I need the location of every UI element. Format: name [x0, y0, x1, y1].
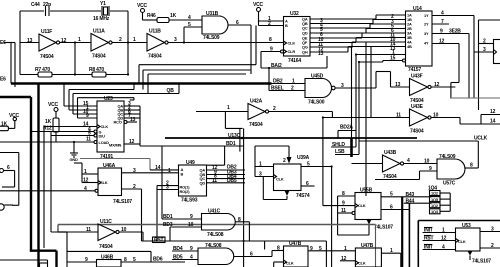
flip-flop partial bottom left — [0, 260, 48, 267]
wire U55B Qbar out to B44 — [381, 198, 432, 210]
wire bus line 4 — [78, 98, 135, 100]
wire crystal right vertical — [127, 11, 129, 76]
svg-text:8: 8 — [470, 163, 473, 169]
svg-text:3: 3 — [341, 83, 344, 89]
and-gate second 74LS08 — [198, 243, 234, 265]
wire long to U43E input — [323, 118, 410, 206]
svg-text:12: 12 — [441, 236, 447, 242]
wire IQ bracket — [440, 193, 450, 211]
svg-text:B: B — [181, 172, 184, 177]
svg-text:74S04: 74S04 — [92, 54, 106, 60]
svg-text:BD1: BD1 — [163, 214, 173, 220]
inverter U43F — [395, 74, 440, 105]
svg-text:3: 3 — [259, 172, 262, 178]
svg-text:CLK: CLK — [288, 41, 296, 46]
svg-text:BD3: BD3 — [163, 222, 173, 228]
svg-text:1Y: 1Y — [424, 13, 429, 18]
IC U46A 74LS107 — [98, 163, 132, 205]
svg-text:R12: R12 — [43, 126, 52, 132]
gate partial left edge with bubble — [0, 165, 15, 187]
svg-text:8: 8 — [238, 217, 241, 223]
power VCC at U32 — [253, 2, 284, 21]
wire branch to AND gate input — [184, 22, 202, 43]
capacitor C44 — [31, 2, 51, 16]
svg-text:2Y: 2Y — [424, 22, 429, 27]
svg-text:U43F: U43F — [411, 74, 423, 80]
svg-text:2: 2 — [133, 184, 136, 190]
wire into U49 pin14 — [150, 165, 179, 171]
flip-flop U39A 74S74 — [274, 155, 310, 199]
wire L-line 3 — [148, 74, 246, 94]
svg-text:CLK: CLK — [358, 203, 366, 208]
svg-text:8: 8 — [277, 246, 280, 252]
svg-text:U46B: U46B — [101, 255, 114, 261]
svg-text:13: 13 — [130, 117, 136, 123]
wire U49 QC net DB4 — [207, 174, 246, 180]
flip-flop U46B bottom — [97, 255, 122, 267]
wire U39A Qbar out — [301, 181, 315, 187]
wire U32 QC to U14 — [310, 24, 406, 34]
wire right edge stubs 12 14 — [460, 109, 500, 125]
wire L-line 1 — [139, 26, 256, 84]
svg-text:VCC: VCC — [48, 102, 59, 108]
svg-text:RST: RST — [424, 236, 434, 242]
wire U53 RST pin12 — [423, 236, 456, 242]
svg-text:CLR: CLR — [288, 49, 296, 54]
svg-text:8: 8 — [269, 37, 272, 43]
inverter U42A — [248, 99, 269, 129]
inverter U43E — [396, 104, 439, 135]
svg-text:B43: B43 — [406, 192, 415, 198]
wire U53 Q out — [480, 227, 500, 233]
wire U49 RO inputs — [157, 181, 179, 241]
svg-text:U57C: U57C — [443, 181, 456, 187]
svg-text:2: 2 — [273, 106, 276, 112]
svg-text:5: 5 — [319, 246, 322, 252]
wire thick stub SHLD — [350, 138, 353, 157]
wire bus line 3 — [73, 84, 179, 94]
wire U53 bottom pin — [468, 251, 473, 260]
wire U11F out junction down to R7R8 row — [74, 43, 76, 75]
wire feedback bottom row — [20, 73, 128, 75]
svg-text:74S04: 74S04 — [249, 122, 263, 128]
svg-text:16 MHz: 16 MHz — [93, 16, 110, 22]
resistor R8 — [89, 67, 106, 77]
wire U49 QB net DB3 — [207, 170, 246, 176]
wire U41C output — [235, 217, 249, 241]
svg-text:14: 14 — [155, 165, 161, 171]
svg-text:R46: R46 — [147, 13, 156, 19]
power VCC left edge — [8, 113, 19, 128]
resistor 1K left edge — [0, 122, 8, 131]
wire U14 strobe pin1 — [356, 50, 406, 56]
node U13C label — [228, 133, 241, 139]
svg-text:U43B: U43B — [384, 150, 397, 156]
wire AND2 input BD5 — [172, 255, 198, 261]
gate partial left edge big bubble — [0, 204, 13, 210]
svg-text:74LS107: 74LS107 — [113, 199, 132, 205]
wire vertical pair mid — [240, 128, 244, 267]
svg-text:Y1: Y1 — [100, 1, 106, 7]
IC U23 74191 — [97, 96, 124, 160]
svg-text:1: 1 — [390, 248, 393, 254]
svg-text:U32: U32 — [290, 11, 299, 17]
wire U32 QG to U14 — [310, 42, 406, 53]
IC U49 74LS93 — [179, 160, 207, 204]
gray long horizontal wire — [58, 225, 376, 267]
svg-text:E6: E6 — [0, 77, 6, 83]
svg-text:12: 12 — [61, 38, 67, 44]
svg-text:U42A: U42A — [250, 99, 263, 105]
svg-text:BD1: BD1 — [226, 141, 236, 147]
wire U39A preset loop top — [255, 146, 292, 164]
wire U23 outputs QA-QD — [124, 101, 140, 146]
flip-flop U47A — [284, 241, 309, 267]
wire U39A CLK input — [255, 146, 274, 178]
svg-text:9: 9 — [310, 246, 313, 252]
and-gate U31B 74LS09 — [202, 11, 228, 41]
wire U14 4Y out — [432, 39, 459, 99]
svg-text:DB2: DB2 — [273, 79, 283, 85]
wire U14 2Y stub — [432, 19, 449, 25]
wire U11B out to CLK U32 — [168, 37, 283, 44]
svg-text:5: 5 — [390, 192, 393, 198]
wire U53 Qbar out — [480, 243, 500, 249]
node left edge label E6 lower — [0, 77, 6, 83]
resistor R46 — [147, 13, 177, 23]
svg-text:CLK: CLK — [286, 261, 294, 266]
wire U43F output — [431, 86, 455, 88]
wire U47B Q out — [381, 248, 400, 267]
inverter U43B — [383, 150, 411, 180]
wire U49 QA net DB2 — [207, 165, 246, 172]
svg-text:74164: 74164 — [288, 58, 301, 64]
wire U55B K input — [338, 208, 355, 215]
svg-text:GND: GND — [70, 157, 79, 162]
wire horizontal net BD1 — [140, 141, 244, 219]
wire bus thick DB2 — [11, 84, 272, 95]
wire U46A pin1 — [74, 163, 98, 183]
svg-text:UCLK: UCLK — [474, 136, 488, 142]
svg-text:R7 470: R7 470 — [35, 67, 50, 73]
svg-text:C44: C44 — [31, 2, 40, 8]
svg-text:3Y: 3Y — [424, 31, 429, 36]
wire U55B bottom loop — [338, 213, 372, 235]
svg-text:74LS08: 74LS08 — [207, 232, 224, 238]
svg-text:74S04: 74S04 — [148, 54, 162, 60]
svg-text:CLK: CLK — [358, 261, 366, 266]
wire U32 CLR from below — [261, 47, 281, 69]
svg-text:BA/2: BA/2 — [271, 63, 282, 69]
wire U23 RCO — [124, 117, 137, 124]
svg-text:U47B: U47B — [361, 243, 374, 249]
svg-text:MX/MN: MX/MN — [109, 143, 122, 148]
nand U45D 74LS00 — [305, 74, 335, 106]
crystal Y1 — [93, 1, 110, 22]
svg-text:3: 3 — [483, 47, 486, 53]
svg-text:BD4: BD4 — [173, 246, 183, 252]
svg-text:U47B: U47B — [289, 241, 302, 247]
svg-text:9: 9 — [342, 201, 345, 207]
IC U55B 74LS107 — [355, 188, 393, 231]
svg-text:U11A: U11A — [93, 29, 105, 35]
svg-text:6: 6 — [250, 252, 253, 258]
svg-text:12: 12 — [129, 139, 135, 145]
svg-text:6: 6 — [306, 181, 309, 187]
svg-text:4: 4 — [190, 255, 193, 261]
svg-text:BSEL: BSEL — [271, 86, 284, 92]
wire U23 MXMN — [124, 139, 140, 145]
svg-text:1: 1 — [292, 79, 295, 85]
svg-text:U46A: U46A — [103, 163, 116, 169]
wire RST line — [142, 241, 327, 267]
svg-text:R8 470: R8 470 — [89, 67, 104, 73]
svg-text:6: 6 — [390, 205, 393, 211]
wire net BA/2 — [261, 56, 327, 69]
svg-text:U53: U53 — [462, 223, 471, 229]
svg-text:3: 3 — [133, 168, 136, 174]
svg-text:74LS08: 74LS08 — [205, 243, 222, 249]
svg-text:U11B: U11B — [149, 29, 161, 35]
wire U41C input BD1 — [162, 214, 202, 220]
wire U47B pin12 — [340, 256, 355, 262]
svg-text:3E2B: 3E2B — [449, 29, 461, 35]
svg-text:9: 9 — [86, 113, 89, 119]
wire U23 data inputs — [64, 84, 97, 120]
svg-text:13: 13 — [27, 38, 33, 44]
svg-text:CLK: CLK — [276, 177, 284, 182]
svg-text:10: 10 — [188, 222, 194, 228]
svg-text:QD: QD — [200, 180, 206, 185]
svg-text:11: 11 — [212, 178, 217, 184]
wire U55B J input — [338, 191, 355, 213]
svg-text:1K: 1K — [1, 122, 8, 128]
inverter U11B — [147, 29, 177, 60]
wire L-line 2 — [143, 70, 251, 90]
svg-text:11: 11 — [341, 208, 346, 214]
svg-text:74LS09: 74LS09 — [439, 154, 456, 160]
resistor R7 — [35, 67, 52, 77]
svg-text:4: 4 — [84, 186, 87, 192]
svg-text:INIT: INIT — [424, 228, 433, 234]
svg-text:6: 6 — [236, 20, 239, 26]
svg-text:1Q3: 1Q3 — [431, 209, 439, 214]
svg-text:U23: U23 — [104, 96, 113, 102]
wire U46A Qbar out — [122, 184, 142, 241]
svg-text:9: 9 — [270, 47, 273, 53]
wire AND2 input BD4 — [172, 246, 198, 252]
svg-text:74LS00: 74LS00 — [308, 100, 325, 106]
flip-flop U47B — [355, 243, 381, 267]
svg-text:QH: QH — [302, 50, 308, 55]
svg-text:74LS09: 74LS09 — [203, 35, 220, 41]
wire U23 CLK — [44, 122, 97, 249]
IC U14 74157 — [406, 6, 433, 73]
svg-text:2: 2 — [268, 21, 271, 27]
svg-text:1Q2: 1Q2 — [431, 191, 439, 196]
frame bottom right section — [418, 221, 500, 267]
wire U43E output — [431, 118, 460, 125]
svg-text:1: 1 — [227, 105, 230, 111]
wire U23 pin11 load — [0, 137, 97, 144]
svg-text:QD: QD — [118, 116, 124, 121]
node BD2A — [338, 125, 356, 139]
svg-text:1: 1 — [259, 162, 262, 168]
svg-text:2: 2 — [483, 39, 486, 45]
wire bus line 2 — [69, 84, 134, 90]
svg-text:U43E: U43E — [411, 104, 424, 110]
svg-text:3: 3 — [166, 185, 169, 191]
wire U55B Q out to B43 — [381, 192, 432, 199]
wire U11F input — [20, 42, 39, 44]
svg-text:2: 2 — [291, 86, 294, 92]
wire mid vertical bundle — [350, 43, 371, 197]
node LSB — [335, 149, 359, 155]
wire U11F out to U11A — [60, 37, 91, 44]
svg-text:1K: 1K — [45, 119, 52, 125]
power VCC at R12 — [48, 102, 59, 118]
wire U47A clk in — [274, 262, 284, 267]
svg-text:4B: 4B — [407, 44, 412, 49]
svg-text:1: 1 — [344, 246, 347, 252]
wire U14 3Y net 3E2B — [432, 29, 469, 99]
wire oscillator feedback top — [20, 10, 128, 12]
node RST boxed — [153, 237, 166, 244]
wire U46A pin12 clk — [82, 178, 98, 184]
IC U32 74164 — [281, 11, 311, 64]
svg-text:U13C: U13C — [228, 133, 241, 139]
wire U39A Q out — [301, 162, 332, 267]
wire AND2 output — [234, 246, 284, 258]
wire U32 QD to U14 — [310, 28, 406, 38]
svg-text:9: 9 — [190, 246, 193, 252]
wire U32 QA to U14 — [310, 14, 406, 24]
thick wire staircase bottom left — [0, 84, 57, 267]
svg-text:12: 12 — [83, 178, 89, 184]
svg-text:8: 8 — [124, 257, 127, 263]
wire U14 select pin15 — [359, 56, 406, 63]
svg-text:1Q2: 1Q2 — [431, 203, 439, 208]
wire corner above U49 — [207, 146, 225, 165]
svg-text:RO(2): RO(2) — [180, 189, 191, 194]
wire U41C input BD3 — [163, 222, 202, 241]
svg-text:BD5: BD5 — [173, 255, 183, 261]
wire U11C output to RST — [119, 232, 143, 241]
IC U53 74LS107 — [456, 223, 492, 265]
wire left feedback vertical — [19, 11, 21, 75]
svg-text:5: 5 — [133, 257, 136, 263]
svg-text:1: 1 — [84, 169, 87, 175]
and-gate U41C 74LS08 — [202, 209, 236, 239]
wire U46B loop — [67, 232, 151, 267]
node SHLD — [331, 142, 356, 148]
svg-text:74LS93: 74LS93 — [181, 198, 198, 204]
wire U46A Q out — [122, 168, 179, 174]
wire U46B output net BD6 — [121, 257, 185, 264]
wire U47A Q out — [308, 246, 355, 252]
svg-text:1K: 1K — [170, 13, 177, 19]
svg-text:1: 1 — [442, 228, 445, 234]
svg-text:1Q5: 1Q5 — [431, 197, 439, 202]
wire right edge horizontal y98 — [450, 97, 500, 99]
wire U53 INIT pin4 — [423, 245, 456, 251]
wire vertical left long — [50, 132, 52, 231]
svg-text:INIT: INIT — [424, 245, 433, 251]
svg-text:CLK: CLK — [458, 239, 466, 244]
svg-text:12: 12 — [490, 109, 496, 115]
svg-text:11: 11 — [86, 137, 91, 143]
svg-text:BD6: BD6 — [153, 257, 163, 263]
svg-text:12: 12 — [439, 39, 445, 45]
svg-text:74LS107: 74LS107 — [374, 225, 393, 231]
wire R46 to AND — [169, 15, 202, 21]
wire U46B input — [67, 257, 97, 263]
wire U23 pin4 — [31, 127, 97, 134]
wire left loop bottom left — [0, 153, 19, 206]
wire U43F input loop — [376, 72, 410, 88]
svg-text:U11F: U11F — [41, 29, 52, 35]
svg-text:4: 4 — [188, 15, 191, 21]
svg-text:B: B — [285, 23, 288, 28]
wire top right corner — [479, 20, 500, 110]
and-gate U57C — [437, 154, 465, 187]
wire U23 pin5 — [51, 131, 97, 138]
svg-text:2: 2 — [119, 37, 122, 43]
svg-text:1: 1 — [168, 168, 171, 174]
ground GND at U23 — [70, 142, 79, 162]
wire U57C output UCLK — [359, 136, 488, 169]
wire U45D output — [335, 72, 376, 90]
svg-text:7: 7 — [441, 19, 444, 25]
svg-text:74LS107: 74LS107 — [472, 259, 491, 265]
wire U11A out to U11B — [112, 37, 147, 43]
svg-text:74157: 74157 — [408, 67, 421, 73]
wire U45D input DB2 — [272, 79, 306, 85]
node left edge labels — [0, 40, 15, 46]
svg-text:22p: 22p — [43, 2, 51, 8]
svg-text:U39A: U39A — [297, 155, 310, 161]
svg-text:D/U: D/U — [99, 134, 106, 139]
svg-text:5: 5 — [307, 162, 310, 168]
wire U14 1Y out — [432, 11, 474, 99]
svg-text:74S04: 74S04 — [40, 54, 54, 60]
wire U55B clk input — [323, 201, 355, 207]
svg-text:U14: U14 — [413, 6, 422, 12]
inverter U11C — [86, 219, 127, 250]
svg-text:14: 14 — [490, 119, 496, 125]
svg-text:10: 10 — [424, 159, 430, 165]
svg-text:74191: 74191 — [100, 154, 113, 160]
svg-text:U55B: U55B — [360, 188, 373, 194]
resistor R12 — [43, 118, 59, 142]
wire corner into vertical pair — [225, 112, 242, 129]
wire U32 QF to U14 — [310, 37, 406, 48]
inverter U11A — [91, 29, 112, 60]
svg-text:4Y: 4Y — [424, 41, 429, 46]
svg-text:U45D: U45D — [311, 74, 324, 80]
svg-text:6: 6 — [7, 165, 10, 171]
svg-text:9: 9 — [85, 257, 88, 263]
svg-text:9: 9 — [190, 214, 193, 220]
node IQ label stack — [428, 186, 440, 215]
svg-text:3: 3 — [491, 227, 494, 233]
wire U53 INIT pin1 — [423, 228, 456, 234]
svg-text:2: 2 — [491, 243, 494, 249]
wire U45D input BSEL — [269, 68, 305, 92]
svg-text:9: 9 — [440, 29, 443, 35]
svg-text:5: 5 — [188, 22, 191, 28]
svg-text:1: 1 — [78, 37, 81, 43]
